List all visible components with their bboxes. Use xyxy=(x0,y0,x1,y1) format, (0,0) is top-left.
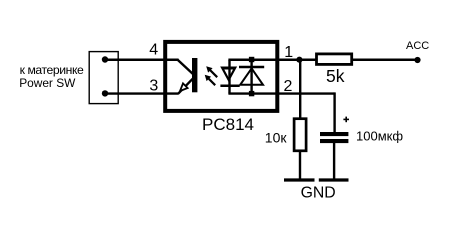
ground bar (under R2) xyxy=(284,178,315,181)
terminal dot, connector pin to opto pin 3 xyxy=(102,90,108,96)
junction square: D2 cathode to pin2 rail xyxy=(249,91,254,96)
svg-text:3: 3 xyxy=(149,78,158,95)
connector J1 (Power SW header) xyxy=(89,52,118,104)
ground bar (under C1) xyxy=(319,178,349,181)
light arrow (lower) xyxy=(205,75,216,86)
junction node: pin 1 / R1 / R2 xyxy=(296,57,302,63)
node label "к материнке / Power SW" xyxy=(19,63,84,90)
LED branch D2 (cathode up) of U1 xyxy=(239,60,264,94)
LED branch D1 (cathode down) of U1 xyxy=(220,60,240,94)
light arrow (upper) xyxy=(206,66,217,77)
svg-text:10к: 10к xyxy=(265,130,288,146)
junction square: D2 anode to pin1 rail xyxy=(249,57,254,62)
resistor R2 10k xyxy=(294,119,306,151)
phototransistor of U1: base bar xyxy=(192,58,197,92)
svg-text:ACC: ACC xyxy=(406,40,429,52)
capacitor C1: top plate xyxy=(320,132,348,136)
wire: R2 bottom to ground xyxy=(299,151,301,180)
wire: connector to opto pin 3 (bottom) xyxy=(105,92,179,94)
svg-text:5k: 5k xyxy=(326,66,345,86)
wire: connector to opto pin 4 (top) xyxy=(105,59,179,62)
capacitor polarity + xyxy=(343,117,349,123)
wire: LED rail / pin 2 out of box xyxy=(228,92,334,94)
svg-text:PC814: PC814 xyxy=(202,115,254,134)
phototransistor collector lead xyxy=(178,60,194,75)
svg-text:100мкф: 100мкф xyxy=(356,128,403,143)
phototransistor emitter arrow xyxy=(180,83,188,91)
optocoupler U1 body (PC814) xyxy=(165,42,277,111)
wire: C1 bottom plate to ground xyxy=(333,143,335,180)
capacitor C1: bottom plate xyxy=(320,139,348,143)
terminal dot, connector pin to opto pin 4 xyxy=(102,56,108,62)
svg-text:2: 2 xyxy=(284,78,293,95)
phototransistor emitter lead xyxy=(178,78,193,93)
wire: junction down to resistor R2 xyxy=(299,60,301,118)
svg-text:Power SW: Power SW xyxy=(19,76,76,90)
wire: pin 2 corner down to capacitor C1 xyxy=(333,92,335,133)
resistor R1 5k xyxy=(317,54,352,65)
svg-text:4: 4 xyxy=(149,42,158,59)
wire: LED rail / pin 1 to resistor R1 and ACC xyxy=(228,59,417,62)
svg-text:GND: GND xyxy=(301,185,336,202)
ACC terminal dot xyxy=(414,57,420,63)
